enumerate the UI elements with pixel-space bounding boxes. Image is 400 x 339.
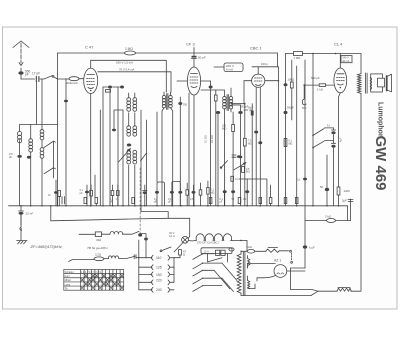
tone caps column bbox=[331, 128, 335, 206]
ground bus bbox=[9, 206, 348, 221]
capacitor blob 224.7 bbox=[223, 190, 227, 193]
row 220 bbox=[139, 280, 174, 285]
series row B mains input bbox=[69, 253, 152, 262]
grid line CL4 bbox=[303, 76, 333, 92]
cap + resistor right of CBC1 bbox=[284, 54, 297, 206]
capacitor blob osc bbox=[127, 144, 131, 147]
switch band 1 bbox=[44, 141, 55, 147]
svg-text:AZ 1: AZ 1 bbox=[274, 259, 281, 263]
tube CBC1 envelope bbox=[252, 74, 265, 87]
svg-text:43Ω: 43Ω bbox=[96, 238, 101, 242]
selector bus bbox=[174, 255, 180, 282]
switch top bbox=[162, 247, 171, 251]
wire CF3 grid bbox=[177, 80, 187, 82]
top HT rail left segment bbox=[58, 53, 278, 206]
capacitor blob 2 right of C47 bbox=[120, 86, 124, 89]
selector tap diagonals bbox=[222, 263, 237, 280]
wire tube C47 top to screen line bbox=[90, 60, 92, 68]
voltage selector bbox=[138, 240, 237, 292]
junction dots on ground bus bbox=[20, 205, 339, 207]
selector levers right bbox=[193, 254, 214, 260]
svg-text:1 2 3 4 5 6 7 8 9 0 1: 1 2 3 4 5 6 7 8 9 0 1 bbox=[81, 272, 102, 274]
tube CF3 envelope bbox=[187, 67, 200, 95]
svg-text:500µF: 500µF bbox=[287, 107, 294, 110]
coil 3 bbox=[40, 130, 44, 134]
wire tube C47 cathode drop bbox=[99, 110, 101, 206]
svg-text:TA: TA bbox=[65, 288, 68, 291]
top HT rail right segment bbox=[286, 54, 362, 74]
wire CBC1 anode right bbox=[265, 80, 279, 82]
tone switch 2 bbox=[313, 141, 334, 148]
svg-text:CF 3: CF 3 bbox=[186, 42, 195, 47]
svg-text:Wellensch.: Wellensch. bbox=[66, 81, 79, 85]
resistor 0.8M bbox=[222, 112, 235, 206]
label box 240V 6mA bbox=[214, 63, 243, 72]
resistor 2k line right bbox=[305, 215, 351, 223]
resistor CL4 cathode bbox=[337, 187, 350, 206]
wire vertical x53.5 bbox=[53, 141, 55, 178]
resistor oval on antenna row bbox=[66, 77, 84, 85]
capacitor blob IF1 coupling bbox=[179, 97, 181, 206]
svg-text:17 pF: 17 pF bbox=[32, 72, 40, 76]
wire antenna input row bbox=[21, 78, 35, 80]
wire 70V line to IF1 bbox=[98, 68, 171, 93]
capacitor 6uF on 305 bbox=[303, 245, 315, 249]
capacitor loop U 172 bbox=[172, 181, 180, 205]
capacitor blob coil2 bbox=[27, 156, 31, 159]
svg-text:40 mA: 40 mA bbox=[342, 60, 350, 63]
speaker output transformer bbox=[358, 73, 372, 93]
feedback cap line above CBC1 bbox=[252, 62, 278, 74]
trimmer arrow osc bbox=[119, 149, 131, 163]
wire drop band filter 2 bbox=[41, 79, 43, 130]
blob on 260.3 bbox=[258, 141, 262, 144]
ground symbol bbox=[17, 215, 28, 244]
switch band 2 bbox=[44, 168, 55, 174]
wire rail drop 313 to grid bbox=[312, 54, 314, 206]
mains switch bbox=[290, 250, 293, 263]
heater chain bbox=[196, 234, 248, 251]
capacitor blob coil1 bbox=[9, 141, 22, 206]
capacitor 200pF right bbox=[231, 105, 252, 206]
capacitor bars near 234 bbox=[232, 155, 236, 157]
capacitor blob left low bbox=[65, 79, 67, 206]
svg-text:Schalter: Schalter bbox=[65, 271, 74, 274]
resistor 67ohm bbox=[179, 250, 182, 255]
wire CBC1 bottoms bbox=[256, 87, 260, 206]
svg-text:5000µF: 5000µF bbox=[240, 106, 249, 109]
svg-text:MΩ: MΩ bbox=[289, 142, 293, 145]
oscillator coil bank bbox=[112, 93, 147, 206]
svg-text:1400: 1400 bbox=[344, 189, 351, 193]
svg-text:110: 110 bbox=[156, 256, 162, 260]
wire tube C47 bottom drop bbox=[90, 94, 92, 206]
coil column A top bbox=[127, 98, 131, 102]
IF transformer 1 bbox=[162, 92, 214, 206]
svg-text:100 p: 100 p bbox=[261, 62, 268, 66]
resistor mains zigzag bbox=[266, 248, 289, 253]
heater branch wire bbox=[141, 206, 168, 219]
resistor 200.5 bbox=[199, 190, 202, 195]
svg-text:0,1 MΩ: 0,1 MΩ bbox=[205, 135, 208, 143]
svg-text:GW 469: GW 469 bbox=[372, 136, 389, 191]
antenna coil 1 bbox=[19, 125, 21, 142]
selector left bus bbox=[138, 240, 140, 290]
svg-text:MΩ: MΩ bbox=[222, 127, 226, 131]
svg-text:50µF: 50µF bbox=[248, 107, 254, 110]
heater supply wire bbox=[51, 206, 190, 239]
capacitor blob right of C47 bbox=[103, 86, 120, 89]
svg-text:2 kΩ: 2 kΩ bbox=[325, 215, 331, 219]
wire rail drop to 305 bbox=[304, 60, 306, 268]
tube C47 envelope bbox=[84, 68, 98, 93]
capacitor 2uF bbox=[342, 199, 353, 221]
wire drop band filter bbox=[36, 82, 38, 125]
transformer top small winding bbox=[248, 259, 250, 266]
wire top bus bbox=[20, 124, 58, 126]
wire osc verticals bbox=[123, 110, 147, 206]
coil column A low bbox=[127, 150, 131, 154]
capacitor above CF3 bbox=[192, 48, 206, 68]
mech dashed pickup bbox=[224, 169, 226, 186]
svg-text:12 V: 12 V bbox=[204, 250, 210, 254]
volume pot arrow bbox=[234, 163, 246, 170]
capacitor blob osc left bbox=[112, 129, 116, 132]
svg-text:180 V 1,5 mA: 180 V 1,5 mA bbox=[116, 61, 133, 65]
capacitor blob on 305 bbox=[303, 178, 307, 181]
wire vertical 278 bbox=[277, 67, 279, 206]
svg-text:240: 240 bbox=[156, 288, 162, 292]
resistor 0,1M left bbox=[207, 188, 209, 195]
svg-text:10kΩ: 10kΩ bbox=[288, 78, 295, 82]
switch antenna bbox=[40, 75, 58, 79]
phone jack bbox=[302, 85, 307, 110]
fuse FAG bbox=[241, 245, 266, 253]
tone switch 1 bbox=[313, 128, 334, 135]
resistor on 244.8 bbox=[244, 104, 246, 139]
wire drops right of C47 bbox=[103, 87, 118, 206]
capacitor 1nF near 141 bbox=[143, 185, 147, 191]
capacitor 12nF ground bbox=[19, 206, 34, 225]
svg-text:500 pF: 500 pF bbox=[311, 76, 320, 80]
svg-text:500: 500 bbox=[302, 106, 307, 110]
svg-text:MΩ: MΩ bbox=[246, 171, 250, 174]
capacitor 200pF left bbox=[216, 111, 220, 206]
svg-text:CL 4: CL 4 bbox=[334, 42, 343, 47]
components hanging on ground bus middle bbox=[58, 112, 299, 206]
capacitor loop U 157 bbox=[157, 182, 164, 206]
connector board bbox=[201, 248, 234, 262]
svg-text:2µF: 2µF bbox=[342, 199, 347, 203]
coil column A mid bbox=[127, 126, 131, 130]
svg-text:125: 125 bbox=[156, 266, 162, 270]
blob on 240.5 low bbox=[239, 156, 243, 159]
mech link dashed bbox=[139, 168, 141, 233]
svg-text:Ω: Ω bbox=[183, 253, 185, 257]
svg-text:6 µF: 6 µF bbox=[309, 246, 315, 250]
wire CF3 bottom drop bbox=[193, 95, 195, 206]
svg-text:250: 250 bbox=[183, 104, 188, 107]
wire long right riser bbox=[360, 93, 362, 290]
svg-text:70 V 5,4 mA: 70 V 5,4 mA bbox=[119, 68, 135, 72]
row 240 bbox=[139, 287, 174, 292]
svg-text:Lang: Lang bbox=[65, 283, 71, 286]
svg-text:MΩ: MΩ bbox=[248, 142, 252, 145]
table bbox=[64, 270, 124, 291]
components above ground bus left bbox=[48, 180, 92, 206]
capacitor 54pF bbox=[248, 104, 254, 206]
svg-text:µF: µF bbox=[9, 155, 12, 159]
coil 4 bbox=[41, 140, 43, 206]
bottom right wires bbox=[291, 268, 361, 296]
table X marks bbox=[81, 274, 124, 290]
rectifier AZ1 bbox=[248, 259, 305, 282]
svg-text:1 kΩ: 1 kΩ bbox=[317, 88, 323, 92]
capacitor 17pF series bbox=[32, 72, 40, 82]
trimmer arrow osc right bbox=[141, 153, 147, 161]
screen caps right of CF3 bbox=[201, 81, 218, 206]
speaker bbox=[371, 74, 392, 92]
pilot lamp bbox=[169, 231, 196, 252]
svg-text:1 MΩ: 1 MΩ bbox=[294, 56, 301, 60]
resistor 1M oval on rail bbox=[125, 47, 136, 55]
svg-text:Kurz: Kurz bbox=[65, 275, 71, 278]
resistor coil bottom bbox=[337, 288, 351, 291]
capacitor 5000 left low bbox=[254, 131, 258, 206]
svg-text:220: 220 bbox=[156, 279, 162, 283]
wire CL4 bottom bbox=[339, 93, 341, 187]
power transformer bbox=[237, 251, 311, 296]
coil column B low bbox=[133, 150, 137, 154]
svg-text:150: 150 bbox=[156, 273, 162, 277]
resistor 186 bbox=[186, 190, 189, 195]
series row A bbox=[79, 231, 148, 258]
svg-text:Lumophon: Lumophon bbox=[376, 102, 383, 138]
svg-text:ZF=468/(473)kHz,: ZF=468/(473)kHz, bbox=[30, 244, 63, 249]
antenna bbox=[13, 41, 29, 66]
svg-text:TB № ga-208 c: TB № ga-208 c bbox=[87, 246, 109, 250]
coil column B mid bbox=[133, 126, 137, 130]
IF transformer 2 bbox=[201, 88, 233, 206]
wire audio horizontal bbox=[239, 179, 267, 206]
wire to band switch resistor bbox=[58, 78, 70, 80]
capacitor CL4 cathode bbox=[320, 155, 329, 206]
audio section cluster bbox=[207, 155, 267, 206]
resistor 232 bbox=[231, 176, 234, 181]
svg-text:50 pF: 50 pF bbox=[198, 56, 206, 60]
capacitor blob 193.5 bbox=[192, 191, 196, 194]
resistor on rail right bbox=[294, 52, 303, 61]
svg-text:0,2 MΩ: 0,2 MΩ bbox=[211, 135, 214, 143]
label box 240V 40mA bbox=[341, 56, 352, 63]
capacitor blobs low bbox=[231, 190, 235, 193]
svg-text:CF3 C47 CL4 CBC1: CF3 C47 CL4 CBC1 bbox=[197, 242, 219, 245]
row 110 bbox=[151, 255, 180, 260]
wire osc top bbox=[114, 93, 135, 129]
svg-text:C 47: C 47 bbox=[85, 45, 94, 50]
wire 180V line to IF1 bbox=[91, 60, 167, 92]
svg-text:MΩ: MΩ bbox=[211, 191, 215, 194]
tube CL4 envelope bbox=[334, 68, 347, 93]
row 150 bbox=[139, 272, 174, 277]
svg-text:pF: pF bbox=[25, 73, 29, 77]
svg-text:Mittel: Mittel bbox=[65, 279, 71, 282]
svg-text:4µF: 4µF bbox=[340, 137, 343, 142]
resistor small below bbox=[106, 90, 111, 93]
left band filter coils bbox=[9, 125, 57, 206]
svg-text:FAG: FAG bbox=[247, 245, 253, 249]
switch pickup bbox=[221, 161, 228, 168]
svg-text:50: 50 bbox=[320, 185, 324, 189]
capacitor 500pF antenna series bbox=[18, 68, 30, 79]
coil 2 bbox=[30, 125, 32, 140]
coil column B top bbox=[133, 98, 137, 102]
wire IFT2 secondary to CBC1 bbox=[231, 81, 252, 104]
secondary winding bbox=[248, 281, 250, 289]
wire CF3 cathode side bbox=[188, 93, 190, 206]
svg-text:12 nF: 12 nF bbox=[26, 212, 34, 216]
svg-text:CBC 1: CBC 1 bbox=[250, 46, 263, 51]
svg-text:0,1 A: 0,1 A bbox=[169, 234, 175, 238]
svg-text:3,2Ω: 3,2Ω bbox=[95, 253, 101, 257]
svg-text:6 mA: 6 mA bbox=[226, 68, 233, 72]
wire CL4 top bbox=[339, 54, 341, 69]
resistor 0,5M pot bbox=[242, 166, 245, 172]
svg-text:1 MΩ: 1 MΩ bbox=[125, 47, 133, 51]
row 125 bbox=[139, 265, 174, 270]
